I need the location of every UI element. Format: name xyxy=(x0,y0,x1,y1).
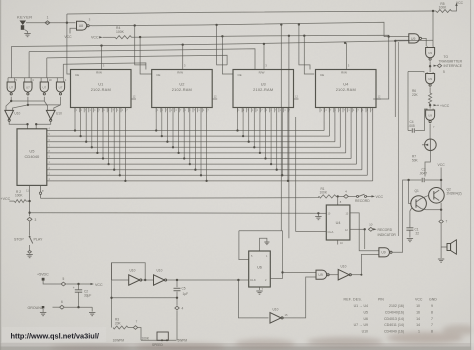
wire U4ff pin12 record indicator xyxy=(350,228,365,230)
wire U9a out to U9b xyxy=(422,38,426,46)
bottom scan band xyxy=(0,343,474,350)
wire riser to gate U7-a xyxy=(10,47,12,78)
switch RECORD xyxy=(348,195,356,197)
wire riser to gate U7-b xyxy=(28,52,30,78)
node U5 clk b xyxy=(35,123,37,125)
node L4 dot U2 pin3 xyxy=(182,44,184,46)
wire data vertical v3 xyxy=(398,42,400,236)
wire U10b output to U5 xyxy=(36,121,51,129)
ground C1 xyxy=(407,238,413,240)
node L3 dot d xyxy=(303,35,305,37)
node U4ff left junction xyxy=(317,212,319,214)
U2 address drops to bus xyxy=(155,108,157,131)
power VCC record xyxy=(372,195,375,197)
wire stop-play vertical xyxy=(29,201,31,216)
wire emitter node xyxy=(426,209,441,211)
node C3 right xyxy=(440,179,442,181)
nand gate U9 c vertical xyxy=(426,72,428,74)
wire U8 top feedback to L1 xyxy=(66,14,68,23)
node R2 junction xyxy=(28,200,30,202)
nand gate U9 d vertical xyxy=(426,109,428,111)
nand gate U7 a xyxy=(7,78,9,82)
wire ground line xyxy=(65,306,92,308)
power VCC top right xyxy=(452,5,457,11)
connector 7 speed xyxy=(128,327,133,329)
wire to speaker xyxy=(440,224,442,247)
capacitor C2 33uF xyxy=(78,284,80,290)
U4 address pin corners xyxy=(323,108,325,131)
wire R1 to record switch xyxy=(336,195,344,197)
node L4 dot v2 xyxy=(394,40,396,42)
ground stop-play xyxy=(26,254,32,256)
wire into inverter U10a xyxy=(6,101,11,110)
wire L3 CE line xyxy=(132,35,389,37)
address bus horizontal lines xyxy=(47,130,324,132)
wire U7a output xyxy=(10,97,12,101)
wire U7d output xyxy=(60,97,62,105)
wire keyer to U8 xyxy=(26,22,76,24)
wire clk long line xyxy=(30,212,319,215)
node L4 dot U4 pin3 xyxy=(344,42,346,44)
wire U10c to U10d xyxy=(141,279,154,281)
wire U7b output xyxy=(27,97,29,105)
wire U9c side input xyxy=(408,72,424,73)
counter U5 CD4040 xyxy=(17,129,47,186)
wire U1 pin 3 R/W xyxy=(101,46,103,70)
ground below keyer jack xyxy=(25,30,28,34)
speaker xyxy=(441,246,447,248)
connector 1 xyxy=(45,21,50,25)
wire C5 to connector 4 xyxy=(176,298,178,306)
wire U10e out to gate xyxy=(282,277,316,318)
wire Q2 collector to VCC node xyxy=(440,180,442,190)
wire into U4ff pin xyxy=(318,212,326,214)
inverter U10 b xyxy=(46,110,55,119)
wire U9a lower input xyxy=(395,39,409,42)
right page edge xyxy=(470,0,471,350)
wire into U10c xyxy=(112,279,129,281)
resistor R3 20K xyxy=(113,326,128,329)
wire U4 chip-select jog xyxy=(299,25,310,70)
connector 4 speed xyxy=(175,306,179,310)
U5 bottom pin 11 xyxy=(29,185,31,201)
wire data vertical v2 xyxy=(394,41,396,117)
connector to transmitter xyxy=(434,65,437,67)
flip-flop U6 CD4013 xyxy=(249,251,271,287)
nand gate U9 keying xyxy=(379,248,390,257)
resistor R5 100K xyxy=(433,10,436,12)
U4 bottom pin stubs xyxy=(319,108,321,113)
url watermark xyxy=(2,327,106,342)
wire U3 chip-select jog xyxy=(217,25,228,65)
nand gate U9 f xyxy=(316,270,327,279)
U1 bottom pin stubs xyxy=(74,108,76,113)
node L2 dot c xyxy=(280,23,282,25)
wire U2 pin 3 R/W xyxy=(182,45,184,70)
wire ground corner xyxy=(91,307,93,311)
nand gate U7 b xyxy=(24,78,26,82)
flip-flop U4 CD4013 xyxy=(326,205,350,240)
wire L7 data line xyxy=(63,63,146,70)
node U9a input junction xyxy=(388,35,390,37)
wire L2 U8 output line xyxy=(90,25,92,27)
ground left terminal xyxy=(42,309,44,312)
node xb xyxy=(27,104,29,106)
wire Q1 side to C1 xyxy=(410,208,412,228)
wire Q1 emitter to C1 xyxy=(421,209,426,210)
resistor R6 22K xyxy=(429,93,432,104)
wire U9c out to R6 xyxy=(429,87,431,93)
connector 10 record indicator xyxy=(368,227,373,231)
wire U4ff top pin xyxy=(337,196,339,205)
ground right xyxy=(89,312,95,314)
RAM chip U3 2102 xyxy=(233,70,294,108)
transistor Q2 2N3904 xyxy=(429,188,445,204)
nand gate U7 c xyxy=(40,78,42,82)
nand gate U7 d xyxy=(56,78,58,82)
wire U1 CE from keyer node xyxy=(67,23,71,74)
wire U2 chip-select jog xyxy=(135,26,146,65)
wire into inverter U10b xyxy=(44,101,47,110)
scan smudges xyxy=(50,325,474,350)
wire switch to ground xyxy=(29,245,31,250)
U3 right pin xyxy=(294,98,299,100)
nand gate U9 a xyxy=(409,34,419,43)
wire cross link 1 xyxy=(11,100,44,102)
wire U4ff CLA input xyxy=(296,117,327,231)
wire osc output line xyxy=(166,279,249,281)
RAM chip U4 2102 xyxy=(316,70,377,108)
connector 4 record xyxy=(344,195,349,199)
wire U6 bottom ground xyxy=(259,287,261,290)
node U6 clk tap xyxy=(237,279,239,281)
wire clk drop to U10e xyxy=(238,280,268,318)
node clk line junction xyxy=(28,212,30,214)
node L2 dot b xyxy=(215,24,217,26)
connector 5 xyxy=(61,282,66,286)
node xa xyxy=(10,100,12,102)
wire U4ff pin13 to gate xyxy=(350,213,379,251)
node L3 dot c xyxy=(288,35,290,37)
wire speaker to ground xyxy=(440,247,442,258)
wire riser to gate U7-c xyxy=(46,58,48,78)
wire U9e lower input xyxy=(361,254,379,275)
wire C4 feedback vertical xyxy=(407,72,409,131)
wire R6 to U9d xyxy=(429,104,431,109)
ground U6 xyxy=(256,290,262,292)
wire U8 lower input VCC xyxy=(70,28,77,33)
capacitor C5 1uF xyxy=(176,280,178,287)
capacitor C1 22 xyxy=(406,227,413,229)
node L4 dot U1 pin3 xyxy=(100,44,102,46)
U1 address drops to bus xyxy=(74,108,76,131)
node osc out xyxy=(144,279,146,281)
wire U4ff bottom pin xyxy=(337,240,339,245)
wire R3 to pot line xyxy=(138,328,141,341)
transistor Q1 xyxy=(411,196,427,212)
node L3 dot b xyxy=(221,35,223,37)
wire U6 Q to gate xyxy=(270,272,282,278)
wire L5 data line xyxy=(29,49,255,70)
wire U9d out to R7 xyxy=(429,124,431,139)
node C5 tap xyxy=(176,279,178,281)
wire L6 data line xyxy=(47,55,227,65)
wire to stop-play switch xyxy=(29,222,31,236)
wire U6 Q line to U9 gate xyxy=(283,271,317,273)
wire vcc rail to R3 xyxy=(111,298,113,328)
wire long data vertical to U6 hook xyxy=(288,36,290,238)
wire record ind drop xyxy=(364,229,366,249)
wire R7 to C3 node xyxy=(425,150,430,176)
wire U7c output xyxy=(43,97,45,101)
connector 3 xyxy=(27,217,32,221)
wire U6 feedback loop xyxy=(239,230,283,232)
node U5 clk a xyxy=(26,123,28,125)
node R1 right junction xyxy=(337,195,339,197)
wire osc top loop xyxy=(112,263,146,280)
wire U4 CE pin xyxy=(304,36,314,74)
wire U10a output to U5 xyxy=(9,121,27,129)
U5 reset pin xyxy=(40,185,42,192)
power VCC mid tap xyxy=(434,104,437,106)
wire gate input link line xyxy=(8,77,63,79)
wire long data vertical to U6 loop xyxy=(280,25,282,231)
U3 bottom pin stubs xyxy=(237,108,239,113)
U1 right pin xyxy=(131,98,136,100)
connector 7 speaker xyxy=(439,220,443,224)
potentiometer R7 50K xyxy=(425,139,437,151)
node record ind junction xyxy=(364,228,366,230)
nand gate U9 b vertical xyxy=(426,46,428,48)
U2 bottom pin stubs xyxy=(155,108,157,113)
node C3 left xyxy=(407,179,409,181)
node L2 dot a xyxy=(134,24,136,26)
wire U6 set hook xyxy=(260,238,267,251)
capacitor C3 .0047 xyxy=(409,179,422,181)
U3 address drops to bus xyxy=(237,108,239,131)
wire cross link 2 xyxy=(28,104,61,106)
inverter U10 a xyxy=(5,110,14,119)
U4 right pin xyxy=(376,98,381,100)
left scan edge xyxy=(0,0,1,350)
wire U2 CE pin xyxy=(140,37,152,74)
wire pot bottom line xyxy=(141,339,176,341)
ground at U4ff input xyxy=(317,213,319,216)
wire U5 reset to R1 line xyxy=(41,196,319,198)
resistor R2 100K xyxy=(9,200,14,202)
wire U4 pin 3 R/W xyxy=(346,43,348,70)
wire U9b output node xyxy=(429,61,431,72)
connector 6 xyxy=(60,305,65,309)
ground U6 set xyxy=(264,241,269,243)
resistor R1 100K xyxy=(319,195,336,198)
wire U3 CE pin xyxy=(222,36,233,74)
node C5 bottom xyxy=(176,297,178,299)
node L2 dot d xyxy=(298,23,300,25)
wire U9e output to C3 node xyxy=(393,180,409,252)
U2 right pin xyxy=(212,98,217,100)
wire osc bottom loop xyxy=(111,263,113,298)
wire U9a top input xyxy=(384,36,409,38)
node L3 dot a xyxy=(139,36,141,38)
capacitor C4 .005 xyxy=(408,130,412,132)
RAM chip U1 2102 xyxy=(71,70,132,108)
resistor R4 100K xyxy=(115,36,132,39)
node keyer junction xyxy=(66,22,68,24)
wire U10f to U9e xyxy=(350,274,361,276)
wire riser to gate U7-d xyxy=(62,64,64,78)
wire L4 R/W line xyxy=(11,40,433,46)
wire connector 4 to pot xyxy=(176,311,178,341)
wire R5 to U9b input xyxy=(432,11,434,46)
nand gate U8 xyxy=(77,21,87,30)
wire data vertical v1 xyxy=(373,37,389,99)
wire C3 to Q1 base xyxy=(409,180,412,204)
wire to VCC xyxy=(66,283,90,285)
ground speaker xyxy=(438,258,444,260)
wire Q2 emitter to speaker xyxy=(440,203,442,210)
node R5 junction xyxy=(432,10,434,12)
wire U3 pin 3 R/W xyxy=(263,44,265,70)
RAM chip U2 2102 xyxy=(152,70,213,108)
wire L1 top line to R5 xyxy=(67,11,433,14)
node L4 dot U3 pin3 xyxy=(263,43,265,45)
wire U9f to U10f xyxy=(328,274,338,276)
wire Q1 collector to Q2 base xyxy=(421,195,429,198)
